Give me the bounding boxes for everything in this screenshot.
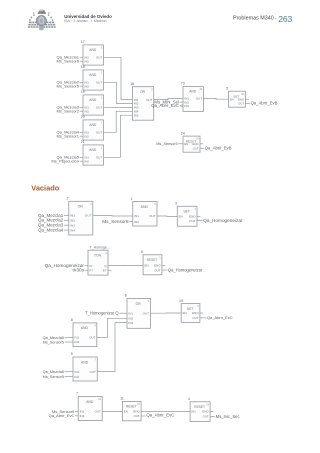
svg-text:OUT: OUT [96, 81, 102, 85]
input label Qa_Mezcla5 [57, 155, 83, 160]
svg-text:OUT: OUT [146, 98, 152, 102]
svg-text:IN2: IN2 [84, 59, 89, 63]
svg-text:OR: OR [78, 205, 84, 209]
wire TON Q to RESET5 EN [108, 264, 143, 266]
wire OR2 to AND1 IN1 [93, 215, 133, 218]
svg-text:20: 20 [81, 115, 85, 119]
output label Qa_Abrir_EvC (reset11) [141, 413, 174, 418]
svg-text:ENO: ENO [193, 142, 200, 146]
svg-text:AND: AND [89, 48, 97, 52]
svg-text:8: 8 [71, 318, 73, 322]
svg-text:IN1: IN1 [74, 336, 79, 340]
input label Ms_Sensor2 [57, 109, 83, 114]
svg-text:IN2: IN2 [84, 84, 89, 88]
OR gate 2 [67, 197, 93, 236]
svg-text:OUT: OUT [203, 415, 209, 419]
svg-text:SET: SET [183, 210, 190, 214]
ENO stub SET3 [197, 215, 201, 217]
input label Ms_Sensor5 (and9) [43, 375, 73, 379]
university logo crest [28, 9, 56, 30]
input label T_Homogenizar.Q [85, 311, 127, 316]
svg-text:Ms_Sensor2: Ms_Sensor2 [57, 109, 80, 114]
AND gate 18 [81, 65, 104, 90]
svg-text:6: 6 [125, 294, 127, 298]
svg-text:EN: EN [179, 215, 183, 219]
svg-text:ET: ET [103, 269, 107, 273]
svg-text:OUT: OUT [85, 214, 92, 218]
wire RESET11 ENO to RESET4 EN [141, 410, 190, 412]
input label Ms_Sensor5 [156, 142, 183, 146]
OR gate 16 [130, 82, 154, 120]
svg-text:AND: AND [86, 400, 94, 404]
AND gate 73 [181, 82, 204, 112]
ENO stub SET10 [200, 312, 203, 314]
svg-text:T_Homogenizar Q: T_Homogenizar Q [85, 311, 118, 316]
svg-text:IN4: IN4 [70, 228, 75, 232]
svg-text:OUT: OUT [238, 102, 244, 106]
svg-text:IN2: IN2 [84, 134, 89, 138]
svg-text:Qa_Homogeneizar: Qa_Homogeneizar [168, 267, 203, 272]
svg-text:IN2: IN2 [84, 159, 89, 163]
svg-text:OUT: OUT [149, 214, 156, 218]
svg-text:OUT: OUT [96, 106, 102, 110]
RESET block 24 [181, 131, 200, 152]
svg-text:21: 21 [81, 140, 85, 144]
svg-text:Problemas M340: Problemas M340 [233, 16, 274, 22]
wire AND9 to OR6 IN3 [97, 323, 127, 372]
svg-text:IN3: IN3 [70, 223, 75, 227]
svg-text:263: 263 [278, 14, 292, 24]
input label t#30s [73, 268, 88, 273]
RESET block 11 [120, 397, 141, 421]
SET block 10 [179, 299, 200, 323]
input label Ms_Sensor5 (vaciado) [102, 219, 132, 224]
svg-text:OUT: OUT [189, 219, 196, 223]
svg-text:9: 9 [71, 352, 73, 356]
ENO stub SET5 [245, 98, 249, 100]
svg-text:3: 3 [175, 201, 177, 205]
input label Qa_Mezcla2 [57, 80, 83, 85]
svg-text:EN: EN [230, 97, 234, 101]
svg-text:T_Homoge...: T_Homoge... [90, 246, 110, 250]
svg-text:Qa_Mezcla4: Qa_Mezcla4 [38, 227, 64, 232]
header title Universidad de Oviedo [64, 14, 112, 19]
TON timer block [88, 250, 108, 275]
input label Qa_Mezcla4 (vaciado) [38, 227, 69, 232]
svg-text:AND: AND [81, 360, 89, 364]
svg-text:24: 24 [181, 131, 185, 135]
svg-text:IN2: IN2 [84, 109, 89, 113]
svg-text:IN2: IN2 [74, 340, 79, 344]
svg-text:RESET: RESET [194, 405, 205, 409]
svg-text:AND: AND [81, 326, 89, 330]
svg-text:ISA - J. Alonso - I. Machón: ISA - J. Alonso - I. Machón [64, 19, 106, 23]
svg-text:Qa_Homogeneizar: Qa_Homogeneizar [203, 218, 243, 223]
input label Qa_Mezcla4 [57, 130, 83, 135]
svg-text:OUT: OUT [89, 336, 96, 340]
input label Ms_PEjecución [51, 159, 83, 164]
svg-text:Ms_Sensor5: Ms_Sensor5 [57, 84, 80, 89]
section title Vaciado [31, 184, 59, 193]
svg-text:AND: AND [189, 90, 197, 94]
svg-text:RESET: RESET [147, 258, 158, 262]
svg-text:EN: EN [192, 410, 196, 414]
svg-text:IN5: IN5 [134, 113, 139, 117]
svg-text:Qa_Abrir_EvB: Qa_Abrir_EvB [205, 146, 232, 151]
input label Qa_Mezcla1 [57, 55, 83, 60]
svg-text:Qa_Abrir_EvC: Qa_Abrir_EvC [207, 315, 233, 320]
svg-text:Ms_PEjecución: Ms_PEjecución [51, 159, 79, 164]
svg-text:IN1: IN1 [128, 311, 133, 315]
svg-text:Ms_Sensor5: Ms_Sensor5 [43, 340, 64, 344]
svg-text:OUT: OUT [154, 268, 160, 272]
svg-text:Qa_Abrir_EvC: Qa_Abrir_EvC [151, 103, 179, 108]
input label Qa_Mezcla6 (and9) [43, 370, 73, 374]
svg-text:RESET: RESET [126, 405, 137, 409]
svg-text:Ms_Sensor6: Ms_Sensor6 [57, 59, 80, 64]
svg-text:IN2: IN2 [70, 219, 75, 223]
input label Ms_Sensor1 [57, 134, 83, 139]
AND gate 19 [81, 90, 104, 115]
svg-text:EN: EN [145, 264, 149, 268]
svg-text:PT: PT [89, 269, 93, 273]
svg-text:IN3: IN3 [128, 321, 133, 325]
svg-text:OUT: OUT [192, 316, 198, 320]
svg-text:OUT: OUT [143, 311, 150, 315]
input label Ms_Sensor5 [57, 84, 83, 89]
output label Qa_Abrir_EvC (set10) [200, 315, 233, 320]
ENO stub RESET24 [200, 143, 203, 145]
svg-text:4: 4 [188, 397, 190, 401]
input label Qa_Mezcla5 (and8) [43, 336, 73, 340]
RESET block 5b [141, 250, 162, 275]
input label Qa_Abrir_EvC negated [151, 103, 181, 108]
wire AND20 to OR16 IN4 [104, 111, 133, 132]
output label Ms_Inic_Sec [210, 414, 239, 419]
svg-text:Ms_Sensor1: Ms_Sensor1 [57, 134, 80, 139]
svg-text:AND: AND [141, 205, 149, 209]
SET block 5 [226, 86, 245, 107]
wire AND73 to SET5 EN [203, 97, 228, 100]
svg-text:ENO: ENO [154, 264, 161, 268]
svg-text:OUT: OUT [193, 147, 199, 151]
wire AND7 to RESET11 EN [102, 410, 122, 412]
input label Qa_Mezcla1 (vaciado) [38, 213, 69, 218]
svg-text:OUT: OUT [90, 370, 97, 374]
OR gate 6 [125, 294, 151, 329]
svg-text:18: 18 [81, 65, 85, 69]
SET block 3 [175, 201, 197, 226]
svg-text:5: 5 [141, 250, 143, 254]
timer instance name T_Homoge... [90, 246, 110, 250]
svg-text:OUT: OUT [94, 410, 101, 414]
svg-text:OR: OR [140, 90, 146, 94]
svg-text:73: 73 [181, 82, 185, 86]
input label Ms_MIN_Sel [154, 99, 183, 104]
svg-text:IN2: IN2 [134, 220, 139, 224]
svg-text:19: 19 [81, 90, 85, 94]
wire OR16 to AND73 IN1 [154, 98, 183, 99]
wire AND21 to OR16 IN5 [104, 115, 133, 157]
input label Qa_Mezcla2 (vaciado) [38, 218, 69, 223]
svg-text:t#30s: t#30s [73, 268, 85, 273]
svg-text:EN: EN [124, 410, 128, 414]
output label Qa_Homogeneizar [197, 218, 243, 223]
svg-text:OUT: OUT [96, 131, 102, 135]
wire AND18 to OR16 IN2 [104, 82, 133, 103]
svg-text:10: 10 [179, 299, 183, 303]
svg-text:7: 7 [76, 392, 78, 396]
RESET block 4 [188, 397, 210, 421]
svg-text:OUT: OUT [134, 414, 140, 418]
AND gate 1 [131, 197, 157, 226]
svg-text:OR: OR [136, 302, 142, 306]
svg-text:IN1: IN1 [70, 214, 75, 218]
svg-text:AND: AND [89, 98, 97, 102]
AND gate 17 [81, 40, 104, 65]
svg-text:Ms_Sensor5: Ms_Sensor5 [43, 375, 64, 379]
svg-text:ENO: ENO [192, 311, 199, 315]
svg-text:Qa_Abrir_EvC: Qa_Abrir_EvC [49, 413, 75, 418]
svg-text:Vaciado: Vaciado [31, 184, 59, 193]
svg-text:IN1: IN1 [74, 370, 79, 374]
svg-text:TON: TON [94, 254, 102, 258]
svg-text:IN1: IN1 [134, 214, 139, 218]
ET stub TON [108, 269, 112, 271]
svg-text:OUT: OUT [196, 97, 202, 101]
svg-text:Qa_Abrir_EvB: Qa_Abrir_EvB [251, 101, 278, 106]
input label Ms_Sensor5 (and7) [52, 409, 78, 414]
svg-text:-: - [275, 15, 277, 21]
svg-text:ENO: ENO [133, 410, 140, 414]
svg-text:AND: AND [89, 148, 97, 152]
svg-text:Qa_Mezcla5: Qa_Mezcla5 [43, 336, 64, 340]
input label Qa_Mezcla3 (vaciado) [38, 223, 69, 228]
input label Qa_Mezcla3 [57, 105, 83, 110]
svg-text:AND: AND [89, 73, 97, 77]
wire OR6 to SET10 EN [150, 312, 181, 314]
wire AND17 to OR16 IN1 [104, 57, 133, 99]
AND gate 8 [71, 318, 97, 347]
svg-text:Qa_Mezcla6: Qa_Mezcla6 [43, 370, 64, 374]
svg-text:1: 1 [131, 197, 133, 201]
wire AND8 to OR6 IN2 [97, 318, 127, 337]
output label Qa_Homogeneizar 2 [162, 267, 203, 272]
svg-text:16: 16 [130, 82, 134, 86]
svg-text:AND: AND [89, 123, 97, 127]
header dash [275, 15, 277, 21]
svg-text:Ms_Sensor5: Ms_Sensor5 [102, 219, 129, 224]
header page number 263 [278, 14, 292, 24]
ENO stub RESET5b [162, 264, 166, 266]
svg-text:EN: EN [183, 311, 187, 315]
input label Qa_Abrir_EvC (and7) [49, 413, 79, 418]
input label Ms_Sensor5 (and8) [43, 340, 73, 344]
svg-text:IN2: IN2 [80, 414, 85, 418]
wire AND19 to OR16 IN3 [104, 106, 133, 108]
svg-text:OUT: OUT [96, 156, 102, 160]
header page title Problemas M340 [233, 16, 274, 22]
svg-text:Ms_Sensor5: Ms_Sensor5 [156, 142, 177, 146]
output label Qa_Abrir_EvB [245, 101, 277, 106]
wire AND1 to SET3 EN [157, 215, 177, 218]
svg-text:Ms_Inic_Sec: Ms_Inic_Sec [216, 414, 240, 419]
svg-text:Qa_Abrir_EvC: Qa_Abrir_EvC [146, 413, 174, 418]
AND gate 9 [71, 352, 97, 381]
input label Ms_Sensor6 [57, 59, 83, 64]
AND gate 20 [81, 115, 104, 140]
svg-text:IN2: IN2 [74, 375, 79, 379]
svg-text:5: 5 [226, 86, 228, 90]
svg-text:IN3: IN3 [184, 104, 189, 108]
AND gate 21 [81, 140, 104, 165]
output label Qa_Abrir_EvB 2 [200, 146, 232, 151]
ENO stub RESET4 [210, 410, 213, 412]
svg-text:EN: EN [184, 142, 188, 146]
input label Qa_Homogeneizar (timer) [45, 263, 88, 268]
header subtitle ISA [64, 19, 106, 23]
svg-text:11: 11 [120, 397, 124, 401]
AND gate 7 [76, 392, 102, 421]
svg-text:2: 2 [67, 197, 69, 201]
svg-text:ENO: ENO [202, 410, 209, 414]
svg-text:IN: IN [89, 264, 92, 268]
svg-text:17: 17 [81, 40, 85, 44]
svg-text:OUT: OUT [96, 56, 102, 60]
